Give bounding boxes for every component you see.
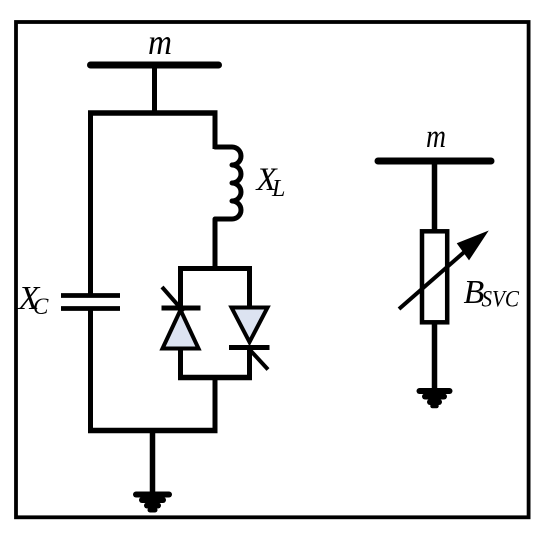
svg-text:m: m: [426, 119, 446, 155]
label XL: [255, 162, 286, 202]
wire: right branch vertical to inductor: [213, 113, 218, 149]
wire: left branch upper vertical: [88, 113, 93, 294]
wire: left thyristor branch upper: [178, 266, 183, 309]
svg-text:L: L: [271, 176, 285, 202]
wire: ground stub (left circuit): [150, 430, 156, 493]
svg-text:SVC: SVC: [482, 287, 520, 312]
wire: TCR block top: [178, 266, 252, 271]
wire: TCR bottom stub: [213, 377, 218, 432]
wire: TCR block bottom: [178, 375, 252, 381]
arrow over BSVC: [399, 232, 488, 310]
thyristor T2 (right, conducting down): [229, 308, 270, 370]
wire: right thyristor branch upper: [247, 266, 252, 308]
wire: left branch lower vertical: [88, 310, 93, 432]
bus bar m (right): [378, 158, 491, 165]
ground (left circuit): [136, 495, 169, 511]
thyristor T1 (left, conducting up): [162, 287, 201, 349]
wire: right thyristor branch lower: [247, 347, 252, 379]
ground (right circuit): [420, 391, 450, 406]
capacitor XC: [61, 296, 120, 309]
wire: bus stub down: [152, 65, 157, 116]
svg-text:C: C: [33, 294, 49, 319]
wire: BSVC to ground: [432, 322, 438, 390]
bus bar m (left): [91, 62, 219, 69]
wire: bottom horizontal joining branches: [88, 428, 218, 434]
svg-text:m: m: [148, 22, 172, 62]
wire: left thyristor branch lower: [178, 348, 183, 379]
label BSVC: [464, 274, 520, 312]
wire: top horizontal of parallel branches: [88, 110, 218, 116]
inductor XL: [215, 147, 241, 219]
wire: right bus stub down: [432, 161, 438, 231]
variable susceptance BSVC (rectangle): [422, 231, 447, 322]
wire: inductor to TCR block: [213, 219, 218, 271]
label XC: [17, 280, 50, 319]
